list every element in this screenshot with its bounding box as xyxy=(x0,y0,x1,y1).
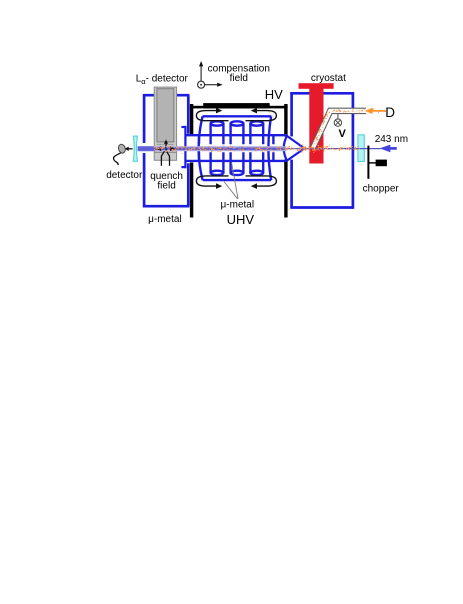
svg-text:field: field xyxy=(230,73,248,84)
svg-text:UHV: UHV xyxy=(227,212,255,227)
svg-text:field: field xyxy=(157,180,175,191)
svg-text:chopper: chopper xyxy=(363,183,400,194)
svg-text:D: D xyxy=(385,105,395,120)
svg-text:243 nm: 243 nm xyxy=(375,134,408,145)
svg-text:detector: detector xyxy=(106,170,143,181)
svg-text:μ-metal: μ-metal xyxy=(221,200,255,211)
svg-text:μ-metal: μ-metal xyxy=(148,214,182,225)
svg-text:HV: HV xyxy=(265,87,283,102)
svg-text:V: V xyxy=(339,128,347,140)
svg-text:cryostat: cryostat xyxy=(311,73,346,84)
